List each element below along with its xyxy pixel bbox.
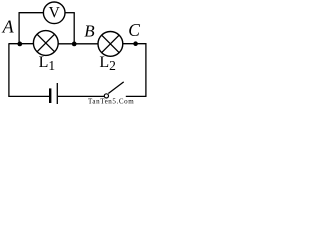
wire top horizontal from voltmeter right [65, 12, 75, 14]
wire top horizontal to voltmeter left [19, 12, 44, 14]
switch S [104, 82, 123, 98]
wire bottom battery to switch [58, 95, 104, 97]
wire bottom left to battery [8, 95, 49, 97]
lamp L2 [98, 32, 123, 57]
node C [133, 41, 138, 46]
wire main segment left corner to node A and lamp L1 [9, 43, 34, 45]
voltmeter V [43, 2, 65, 24]
svg-text:L2: L2 [99, 54, 116, 73]
svg-text:V: V [49, 5, 61, 22]
node B [72, 42, 77, 47]
wire main segment L2 to node C to right corner [123, 43, 147, 45]
svg-text:TanTen5.Com: TanTen5.Com [88, 97, 134, 104]
lamp L1 [33, 31, 58, 56]
wire bottom switch to right corner [126, 95, 147, 97]
wire voltmeter-branch right vertical [73, 13, 75, 44]
svg-text:B: B [84, 22, 95, 41]
wire main segment L1 to node B to lamp L2 [58, 43, 98, 45]
wire voltmeter-branch left vertical [18, 13, 20, 44]
wire left vertical side [8, 43, 10, 96]
node A [17, 42, 22, 47]
svg-text:L1: L1 [39, 54, 56, 73]
battery cell [50, 83, 57, 104]
svg-text:A: A [2, 17, 15, 37]
svg-text:C: C [128, 20, 140, 40]
wire right vertical side [145, 43, 147, 96]
